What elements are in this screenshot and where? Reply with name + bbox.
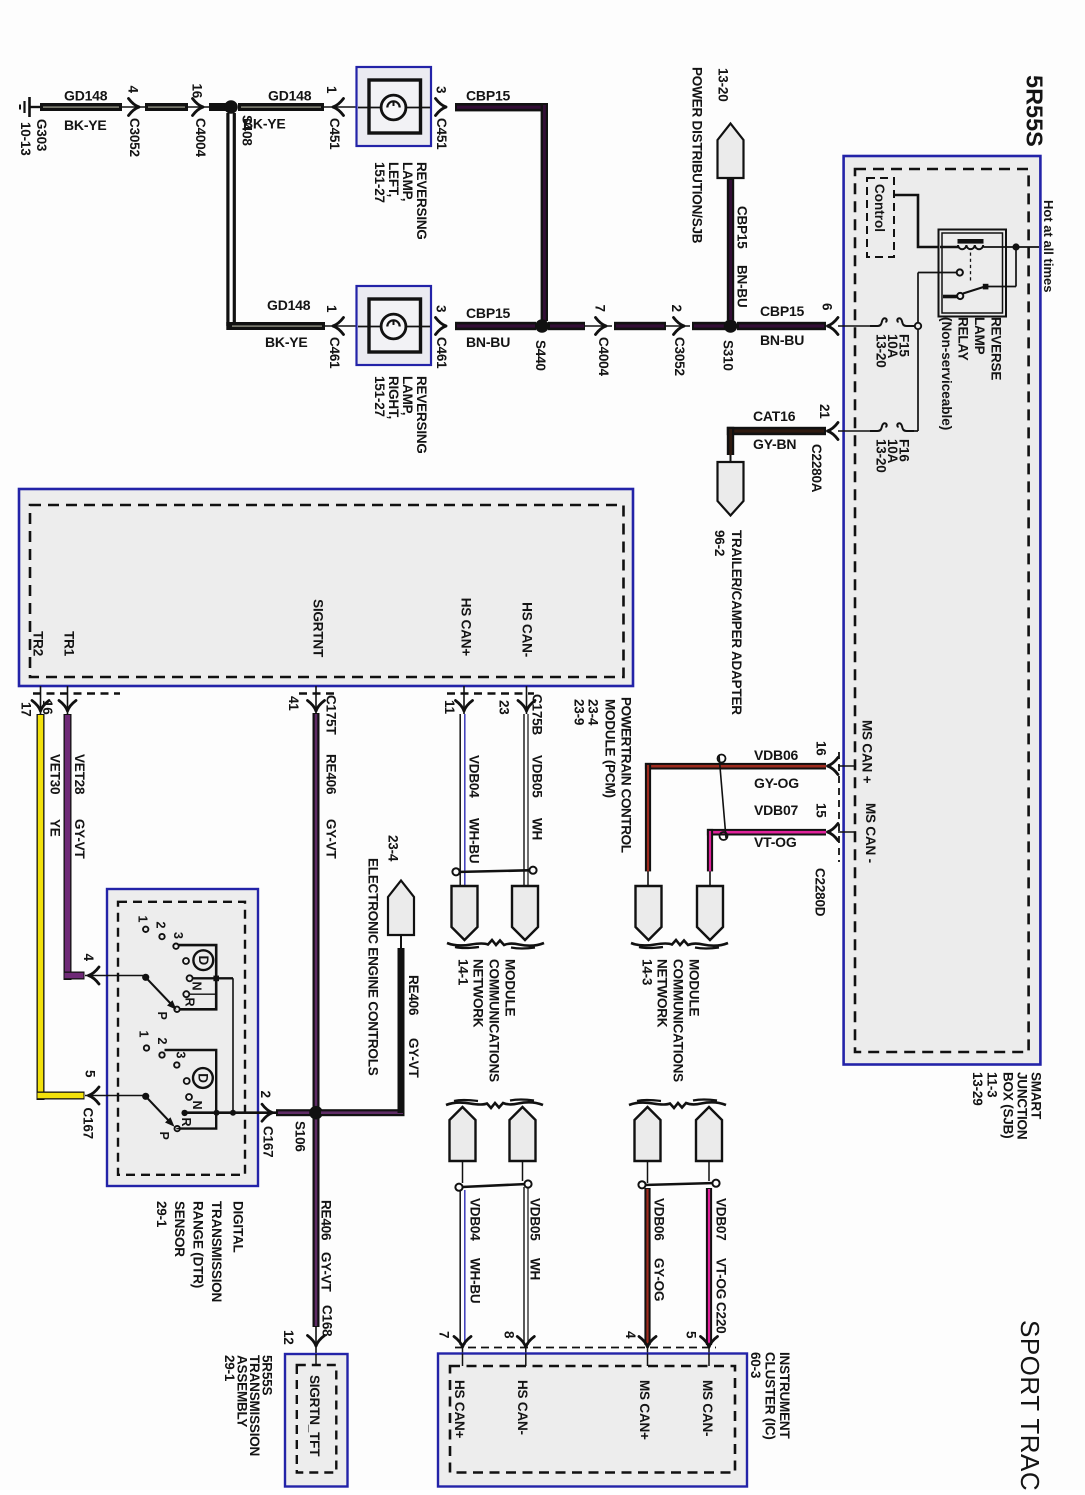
svg-text:2: 2 — [669, 305, 684, 312]
label reversing lamp right — [372, 376, 429, 454]
svg-text:5: 5 — [684, 1331, 699, 1339]
label module communications network 14-3 — [640, 959, 702, 1082]
pigtail VDB07 upper — [697, 886, 723, 940]
ground G303 — [18, 97, 49, 156]
wire CAT16 GY-BN pin21 to trailer adapter — [727, 408, 826, 493]
wire control to relay coil — [894, 195, 959, 247]
label powertrain control module — [572, 697, 634, 853]
reversing lamp left — [357, 67, 432, 146]
svg-text:MODULE: MODULE — [503, 959, 518, 1016]
svg-text:Hot at all times: Hot at all times — [1041, 200, 1056, 292]
control box — [867, 178, 894, 257]
relay coil — [940, 239, 1039, 283]
instrument cluster box — [438, 1354, 747, 1487]
svg-text:RE406: RE406 — [319, 1200, 334, 1241]
svg-text:VDB04: VDB04 — [467, 755, 482, 798]
svg-text:23-4: 23-4 — [386, 835, 401, 862]
svg-text:WH: WH — [528, 1258, 543, 1280]
wire GD148 segment S408 to C451 — [238, 88, 358, 132]
relay switch — [918, 247, 1016, 323]
svg-text:2: 2 — [154, 922, 168, 929]
IC pin 7 arrow — [437, 1331, 472, 1366]
svg-text:P: P — [155, 1012, 169, 1020]
svg-text:RIGHT,: RIGHT, — [386, 376, 401, 419]
svg-text:VET28: VET28 — [72, 754, 87, 795]
svg-text:C2280D: C2280D — [813, 868, 828, 917]
PCM pin 23 arrow / C175B — [497, 686, 545, 735]
svg-text:C3052: C3052 — [127, 118, 142, 157]
MS CAN labels inside SJB — [860, 720, 879, 863]
wire RE406 GY-VT C175T to C168 vertical — [313, 713, 339, 1327]
svg-text:VDB04: VDB04 — [468, 1198, 483, 1241]
svg-text:BK-YE: BK-YE — [243, 116, 286, 132]
svg-text:HS CAN+: HS CAN+ — [452, 1380, 467, 1439]
svg-text:CBP15: CBP15 — [735, 206, 750, 249]
svg-text:VDB07: VDB07 — [714, 1198, 729, 1241]
svg-text:WH-BU: WH-BU — [467, 818, 482, 864]
fuse F16 10A — [870, 423, 918, 472]
wire CBP15 C4004 to C3052 — [614, 322, 690, 330]
svg-text:C461: C461 — [327, 337, 342, 369]
svg-text:SPORT TRAC: SPORT TRAC — [1015, 1320, 1045, 1490]
svg-text:SIGRTN_TFT: SIGRTN_TFT — [307, 1375, 322, 1457]
svg-text:29-1: 29-1 — [222, 1355, 237, 1382]
svg-text:12: 12 — [281, 1330, 296, 1345]
PCM connector dashed boundaries — [33, 692, 534, 695]
svg-text:VDB05: VDB05 — [528, 1198, 543, 1241]
label module communications network 14-1 — [456, 959, 518, 1082]
svg-text:BN-BU: BN-BU — [735, 265, 750, 308]
svg-text:LAMP: LAMP — [972, 317, 987, 355]
svg-text:3: 3 — [434, 305, 449, 313]
DTR pin 2 arrow / C167 — [258, 1091, 276, 1158]
DTR selector link wire — [232, 978, 234, 1112]
svg-text:8: 8 — [502, 1331, 517, 1339]
svg-text:BN-BU: BN-BU — [466, 334, 510, 350]
svg-text:10-13: 10-13 — [18, 122, 33, 156]
IC pin 4 arrow — [623, 1331, 656, 1366]
svg-text:23-9: 23-9 — [572, 699, 587, 725]
svg-text:21: 21 — [817, 404, 832, 419]
svg-text:2: 2 — [155, 1038, 169, 1045]
svg-text:JUNCTION: JUNCTION — [1015, 1072, 1030, 1139]
svg-text:1: 1 — [324, 86, 339, 94]
svg-text:BK-YE: BK-YE — [64, 117, 107, 133]
svg-text:60-3: 60-3 — [748, 1352, 763, 1379]
wire GD148 segment C4004 to S408 — [209, 103, 227, 111]
IC connector dashed boundary — [455, 1347, 716, 1349]
splice S310 — [721, 319, 738, 371]
wire VDB07 VT-OG pin15 to pigtail — [707, 802, 826, 886]
svg-text:GY-VT: GY-VT — [319, 1252, 334, 1292]
svg-text:C220: C220 — [714, 1302, 729, 1333]
svg-text:3: 3 — [434, 86, 449, 94]
label reversing lamp left — [372, 162, 429, 240]
svg-text:151-27: 151-27 — [372, 376, 387, 417]
svg-text:13-20: 13-20 — [716, 68, 731, 102]
PCM pin 41 arrow / C175T — [286, 686, 339, 735]
svg-text:D: D — [196, 956, 211, 966]
twisted pair bar HS CAN lower — [455, 1161, 531, 1191]
svg-text:R: R — [179, 1118, 193, 1127]
tear mark HS lower — [446, 1100, 543, 1109]
svg-text:REVERSING: REVERSING — [414, 376, 429, 454]
wire VDB06 GY-OG lower to IC pin4 — [644, 1188, 666, 1345]
svg-text:13-29: 13-29 — [970, 1072, 985, 1106]
svg-text:C2280A: C2280A — [809, 444, 824, 493]
svg-text:16: 16 — [814, 741, 829, 756]
wire F15 to F16 inside SJB — [917, 330, 919, 432]
svg-text:17: 17 — [19, 702, 34, 717]
off-page arrow ELECTRONIC ENGINE CONTROLS — [366, 835, 415, 1076]
svg-text:ELECTRONIC ENGINE CONTROLS: ELECTRONIC ENGINE CONTROLS — [366, 858, 381, 1076]
svg-text:GY-VT: GY-VT — [324, 819, 339, 859]
svg-text:C175B: C175B — [530, 694, 545, 735]
DTR sensor box — [106, 889, 258, 1186]
svg-text:COMMUNICATIONS: COMMUNICATIONS — [671, 959, 686, 1082]
wire VET30 YE TR2 pin17 to DTR pin5 — [37, 714, 85, 1100]
SJB pin 15 arrow MS CAN- — [813, 803, 857, 917]
svg-text:VDB07: VDB07 — [754, 802, 799, 818]
svg-text:GY-OG: GY-OG — [754, 775, 799, 791]
svg-text:C451: C451 — [327, 118, 342, 150]
svg-text:TRANSMISSION: TRANSMISSION — [209, 1201, 224, 1302]
wire VDB04 WH-BU PCM pin11 to pigtail — [460, 714, 481, 886]
svg-text:RELAY: RELAY — [956, 317, 971, 361]
splice S440 — [533, 319, 549, 371]
svg-text:TRAILER/CAMPER ADAPTER: TRAILER/CAMPER ADAPTER — [729, 530, 744, 715]
svg-text:TR1: TR1 — [62, 631, 77, 657]
svg-text:4: 4 — [623, 1331, 638, 1339]
DTR upper selector contacts — [136, 916, 214, 1020]
wire GD148 BK-YE segment ground to C3052 — [40, 88, 146, 134]
relay box REVERSE LAMP RELAY — [939, 230, 1007, 317]
tear mark HS upper — [447, 940, 544, 949]
wire VDB07 VT-OG lower to IC pin5 — [706, 1188, 729, 1345]
pigtail VDB07 lower — [696, 1107, 722, 1161]
svg-text:HS CAN-: HS CAN- — [515, 1380, 530, 1435]
twisted pair symbol MS CAN — [718, 755, 728, 841]
svg-text:GY-VT: GY-VT — [72, 819, 87, 859]
label 5R55S transmission assembly — [222, 1355, 275, 1456]
C2280D dashed connector boundary — [838, 752, 840, 862]
svg-text:HS CAN+: HS CAN+ — [459, 598, 474, 657]
pigtail VDB04 upper — [452, 886, 478, 940]
C168 pin 12 arrow — [281, 1305, 335, 1365]
svg-text:16: 16 — [190, 84, 205, 99]
IC pin 5 arrow — [684, 1331, 718, 1366]
svg-text:RE406: RE406 — [406, 975, 421, 1016]
svg-text:C451: C451 — [434, 118, 449, 150]
svg-text:CLUSTER (IC): CLUSTER (IC) — [763, 1352, 778, 1440]
twisted pair bar HS CAN upper — [452, 867, 536, 876]
pigtail VDB05 upper — [512, 886, 538, 940]
svg-text:RE406: RE406 — [324, 754, 339, 795]
svg-text:CBP15: CBP15 — [760, 303, 805, 319]
svg-text:CBP15: CBP15 — [466, 88, 511, 104]
svg-text:POWER DISTRIBUTION/SJB: POWER DISTRIBUTION/SJB — [690, 67, 705, 244]
svg-text:HS CAN-: HS CAN- — [520, 602, 535, 657]
svg-text:GD148: GD148 — [268, 88, 312, 104]
svg-text:151-27: 151-27 — [372, 162, 387, 203]
wire CBP15 S310 to SJB pin 6 — [737, 303, 826, 348]
splice S106 — [293, 1106, 323, 1153]
wire CBP15 BN-BU power distribution to S310 — [727, 178, 750, 320]
svg-text:C4004: C4004 — [193, 118, 208, 157]
svg-text:1: 1 — [324, 305, 339, 313]
svg-text:MODULE: MODULE — [687, 959, 702, 1016]
svg-text:11: 11 — [442, 700, 457, 715]
svg-text:MS CAN+: MS CAN+ — [637, 1380, 652, 1440]
svg-text:G303: G303 — [34, 119, 49, 152]
SJB pin 16 arrow MS CAN+ — [814, 741, 857, 775]
connector C4004 pin 7 — [593, 305, 612, 377]
DTR upper selector frame — [179, 945, 233, 1009]
PCM pin 17 arrow — [19, 686, 50, 717]
svg-text:GD148: GD148 — [267, 297, 311, 313]
svg-text:VDB05: VDB05 — [530, 755, 545, 798]
tear mark MS upper — [631, 940, 728, 949]
svg-text:SMART: SMART — [1029, 1072, 1044, 1120]
svg-text:NETWORK: NETWORK — [655, 959, 670, 1028]
connector C461 pin 1 — [324, 305, 344, 369]
wire RE406 GY-VT pin2 to S106 — [276, 1109, 315, 1116]
IC pin 8 arrow — [502, 1331, 535, 1366]
DTR upper selector arm — [143, 974, 177, 1009]
svg-text:C3052: C3052 — [672, 337, 687, 376]
svg-text:VDB06: VDB06 — [754, 747, 799, 763]
wire VET28 GY-VT TR1 pin16 to DTR pin4 — [64, 714, 88, 980]
wire CBP15 BN-BU lamp left to S440 corner — [455, 88, 548, 322]
DTR lower selector R contact output — [179, 1110, 276, 1127]
fuse F15 10A — [870, 318, 921, 367]
wire VDB04 WH-BU lower to IC pin7 — [460, 1190, 482, 1345]
pigtail VDB05 lower — [510, 1107, 536, 1161]
svg-text:MS CAN -: MS CAN - — [863, 803, 878, 863]
tear mark MS lower — [629, 1100, 726, 1109]
svg-text:N: N — [190, 1101, 204, 1110]
svg-text:5R55S: 5R55S — [1022, 75, 1048, 147]
pigtail VDB04 lower — [450, 1107, 476, 1161]
svg-text:DIGITAL: DIGITAL — [231, 1201, 246, 1253]
svg-text:1: 1 — [137, 1031, 151, 1038]
DTR pin 5 arrow / C167 — [81, 1070, 145, 1139]
svg-text:15: 15 — [814, 803, 829, 818]
connector C3052 pin 4 — [126, 86, 143, 157]
svg-text:5: 5 — [83, 1070, 98, 1078]
svg-text:C4004: C4004 — [596, 337, 611, 376]
svg-text:C461: C461 — [434, 337, 449, 369]
svg-text:D: D — [195, 1073, 210, 1083]
svg-text:96-2: 96-2 — [712, 530, 727, 556]
reversing lamp right — [357, 286, 432, 365]
svg-text:LAMP,: LAMP, — [400, 376, 415, 415]
svg-text:3: 3 — [171, 932, 185, 939]
svg-text:VT-OG: VT-OG — [754, 834, 797, 850]
connector C461 pin 3 — [434, 305, 450, 369]
svg-text:WH-BU: WH-BU — [468, 1258, 483, 1304]
svg-text:Control: Control — [872, 184, 887, 232]
svg-text:WH: WH — [530, 818, 545, 840]
SJB box — [844, 156, 1041, 1065]
svg-text:23-4: 23-4 — [586, 699, 601, 726]
PCM pin 11 arrow — [442, 686, 473, 715]
svg-text:13-20: 13-20 — [874, 334, 889, 368]
svg-text:CAT16: CAT16 — [753, 408, 796, 424]
connector C451 pin 3 — [434, 86, 450, 150]
svg-text:COMMUNICATIONS: COMMUNICATIONS — [487, 959, 502, 1082]
svg-text:16: 16 — [40, 700, 55, 715]
off-page arrow TRAILER/CAMPER ADAPTER — [712, 462, 744, 715]
svg-text:C167: C167 — [81, 1108, 96, 1139]
off-page arrow POWER DISTRIBUTION/SJB — [690, 67, 744, 244]
svg-text:BK-YE: BK-YE — [265, 334, 308, 350]
DTR lower selector contacts — [137, 1031, 213, 1140]
connector C451 pin 1 — [324, 86, 344, 150]
DTR lower selector arm — [143, 1093, 175, 1126]
svg-text:R: R — [183, 998, 197, 1007]
relay hot node — [1012, 243, 1019, 250]
svg-text:LAMP,: LAMP, — [400, 162, 415, 201]
svg-text:REVERSING: REVERSING — [414, 162, 429, 240]
svg-text:C175T: C175T — [324, 695, 339, 735]
SJB pin 6 arrow — [820, 303, 873, 335]
PCM box — [19, 489, 633, 686]
wire CBP15 BN-BU lamp right to S440 — [455, 305, 536, 350]
svg-text:C168: C168 — [320, 1305, 335, 1337]
svg-text:YE: YE — [48, 819, 63, 837]
svg-text:41: 41 — [286, 696, 301, 711]
svg-text:LEFT,: LEFT, — [386, 162, 401, 197]
svg-text:SIGRTNT: SIGRTNT — [311, 599, 326, 658]
svg-text:7: 7 — [437, 1331, 452, 1338]
wire GD148 segment C3052 to C4004 — [145, 103, 210, 111]
svg-text:S440: S440 — [533, 340, 548, 371]
svg-text:CBP15: CBP15 — [466, 305, 511, 321]
svg-text:POWERTRAIN CONTROL: POWERTRAIN CONTROL — [619, 697, 634, 853]
svg-text:GY-VT: GY-VT — [406, 1038, 421, 1078]
svg-text:13-20: 13-20 — [874, 439, 889, 473]
svg-text:N: N — [190, 982, 204, 991]
svg-text:C167: C167 — [261, 1126, 276, 1157]
svg-text:29-1: 29-1 — [154, 1201, 169, 1228]
svg-text:NETWORK: NETWORK — [471, 959, 486, 1028]
pigtail VDB06 upper — [636, 886, 662, 940]
svg-text:S106: S106 — [293, 1121, 308, 1152]
svg-text:GY-BN: GY-BN — [753, 436, 796, 452]
svg-text:23: 23 — [497, 700, 512, 715]
transmission assembly box — [285, 1354, 348, 1487]
svg-text:VDB06: VDB06 — [652, 1198, 667, 1241]
svg-text:BOX (SJB): BOX (SJB) — [1001, 1072, 1016, 1138]
svg-text:2: 2 — [258, 1091, 273, 1098]
wire VDB06 GY-OG pin16 to pigtail — [645, 747, 826, 886]
svg-text:SENSOR: SENSOR — [172, 1201, 187, 1257]
svg-text:P: P — [157, 1132, 171, 1140]
svg-text:1: 1 — [136, 916, 150, 923]
svg-text:3: 3 — [174, 1052, 188, 1059]
PCM pin 16 arrow — [40, 686, 76, 715]
svg-text:TR2: TR2 — [31, 631, 46, 656]
label smart junction box — [970, 1072, 1044, 1139]
svg-text:VT-OG: VT-OG — [714, 1258, 729, 1299]
twisted pair bar MS CAN lower — [638, 1161, 719, 1188]
connector C4004 pin 16 — [190, 84, 209, 158]
wire VDB05 WH lower to IC pin8 — [524, 1187, 543, 1345]
wire CBP15 S440 to C4004 — [548, 322, 612, 330]
wire RE406 S106 to electronic engine controls — [320, 936, 422, 1117]
svg-text:(Non-serviceable): (Non-serviceable) — [939, 317, 954, 430]
svg-text:14-1: 14-1 — [456, 959, 471, 986]
svg-text:S310: S310 — [721, 340, 736, 371]
connector C3052 pin 2 — [669, 305, 687, 376]
svg-text:BN-BU: BN-BU — [760, 332, 804, 348]
svg-text:MODULE (PCM): MODULE (PCM) — [603, 699, 618, 798]
svg-text:GY-OG: GY-OG — [652, 1258, 667, 1301]
svg-text:4: 4 — [126, 86, 141, 94]
pigtail VDB06 lower — [635, 1107, 661, 1161]
label reverse lamp relay — [939, 317, 1004, 430]
svg-text:14-3: 14-3 — [640, 959, 655, 986]
DTR pin 4 arrow — [81, 954, 144, 985]
label digital transmission range sensor — [154, 1201, 246, 1302]
svg-text:REVERSE: REVERSE — [989, 317, 1004, 380]
svg-text:VET30: VET30 — [48, 754, 63, 794]
splice S408 — [224, 100, 254, 146]
svg-text:GD148: GD148 — [64, 88, 108, 104]
svg-text:4: 4 — [81, 954, 96, 962]
svg-text:11-3: 11-3 — [985, 1072, 1000, 1098]
SJB pin 21 arrow — [817, 404, 872, 440]
svg-text:MS CAN-: MS CAN- — [700, 1380, 715, 1436]
svg-text:7: 7 — [593, 305, 608, 312]
wire CBP15 C3052 to S310 — [692, 322, 725, 330]
label instrument cluster — [748, 1352, 792, 1440]
svg-text:INSTRUMENT: INSTRUMENT — [777, 1352, 792, 1439]
svg-text:MS CAN +: MS CAN + — [860, 720, 875, 784]
wire GD148 vertical S408 to right lamp — [226, 113, 358, 350]
wire VDB05 WH PCM pin23 to pigtail — [524, 714, 545, 886]
svg-text:6: 6 — [820, 303, 835, 311]
DTR lower selector frame — [165, 1050, 217, 1129]
svg-text:RANGE (DTR): RANGE (DTR) — [191, 1201, 206, 1288]
